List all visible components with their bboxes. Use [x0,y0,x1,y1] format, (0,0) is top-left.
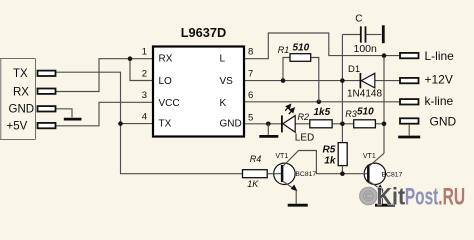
svg-text:Post: Post [405,184,438,211]
wire RX from connector up to IC pin1 [56,59,154,92]
node R5 Q2 base junction [340,171,345,176]
svg-text:L9637D: L9637D [181,25,227,40]
ground symbol at connector [64,118,82,121]
connector pad L-line [400,53,419,58]
svg-text:BC817: BC817 [295,171,316,178]
ground symbol at pin5 [259,135,278,138]
svg-text:VT1: VT1 [275,153,288,160]
transistor Q2 collector [369,153,384,166]
resistor R3 body [354,120,376,128]
wire GND pad stub [408,124,410,135]
svg-text:1K: 1K [247,179,259,189]
connector pad GND [38,106,56,111]
svg-text:GND: GND [9,104,35,116]
capacitor C plates [360,26,362,42]
svg-text:.RU: .RU [438,184,465,211]
svg-text:L: L [220,53,226,64]
svg-text:6: 6 [248,90,253,101]
node pin1 junction [128,56,133,61]
svg-text:1k5: 1k5 [314,107,331,118]
svg-text:8: 8 [248,47,253,58]
ground symbol at GND pad [398,136,420,139]
svg-text:2: 2 [142,68,147,79]
svg-text:R3: R3 [345,109,357,119]
wire pin1-pin2 link [130,59,153,81]
svg-text:RX: RX [159,53,173,64]
svg-text:D1: D1 [348,64,360,75]
wire +5V to IC pin3 VCC [56,102,154,126]
svg-text:k-line: k-line [425,94,454,108]
transistor Q2 base bar [367,165,370,182]
resistor R2 body [310,120,332,128]
wire vertical L-line to Q2 collector [383,56,385,154]
connector pad +5V [38,123,56,128]
IC U1 L9637D box [153,47,244,137]
svg-text:5: 5 [248,112,253,123]
connector pad GND right [400,118,419,123]
node R3 right junction [382,122,387,127]
resistor R5 lead bottom [341,166,343,174]
node L-line junction [382,53,387,58]
svg-text:R2: R2 [298,112,310,122]
wire TX from connector to IC pin4 and down to R4 [56,72,243,174]
resistor R4 body [243,170,268,178]
svg-text:100n: 100n [354,43,378,55]
connector pad k-line [400,99,419,104]
svg-text:VCC: VCC [159,98,180,109]
svg-text:GND: GND [220,119,242,130]
svg-text:Kit: Kit [377,184,406,211]
svg-text:R5: R5 [323,145,336,156]
connector pad RX [38,89,56,94]
LED cathode bar [281,115,283,132]
svg-text:L-line: L-line [425,49,455,63]
svg-text:TX: TX [159,119,172,130]
svg-text:4: 4 [142,112,147,123]
diode D1 triangle [361,73,375,88]
transistor Q1 body circle [274,163,295,184]
wire K k-line row [244,101,400,103]
svg-text:510: 510 [357,107,374,118]
ground symbol at Q1 emitter [288,204,308,207]
connector pad +12V [400,78,419,83]
svg-text:GND: GND [430,114,457,128]
svg-text:R4: R4 [250,154,262,164]
transistor Q2 emitter [369,181,382,190]
wire pin5 ground stub [267,124,269,135]
node k-line R1 junction [317,100,322,105]
svg-text:C: C [355,14,362,25]
transistor Q1 collector route to Q2 base [283,151,368,174]
wire vertical VS-cap-R5 net [341,35,343,143]
svg-text:+12V: +12V [425,73,453,87]
resistor R1 leads [283,58,290,81]
svg-text:3: 3 [142,90,147,101]
svg-text:©: © [363,189,374,205]
svg-text:VS: VS [220,76,234,87]
node pin5 junction [266,122,271,127]
svg-text:RX: RX [13,86,29,98]
resistor R1 body [290,54,311,62]
transistor Q1 base bar [281,165,284,182]
wire IC pin8 L route to L-line [244,33,400,59]
svg-text:1N4148: 1N4148 [347,89,382,100]
wire IC pin4 [121,123,154,125]
node R2 R3 R5 junction [340,122,345,127]
svg-text:+5V: +5V [7,121,28,133]
connector J1 box outline [0,59,36,140]
diode D1 cathode bar [359,73,361,88]
connector pad TX [38,71,56,76]
svg-text:7: 7 [248,69,253,80]
wire GND stub to ground [56,109,73,118]
svg-text:BC817: BC817 [382,172,403,179]
watermark KitPost.RU [360,184,465,211]
svg-text:K: K [220,98,227,109]
svg-text:VT1: VT1 [363,153,376,160]
svg-text:1k: 1k [324,156,336,167]
svg-text:1: 1 [142,47,147,58]
svg-text:LED: LED [295,133,314,144]
node VS cap junction [340,78,345,83]
LED arrows [285,105,294,115]
node pin4 junction [118,121,123,126]
wire R4 to Q1 base [267,173,282,175]
capacitor C lead left [342,34,360,36]
wire pin5 LED R2 R3 row [244,123,384,125]
node R1 left junction [281,78,286,83]
capacitor C lead right [366,34,381,36]
svg-text:LO: LO [159,76,173,87]
ground symbol at Q2 emitter [375,204,395,207]
svg-text:510: 510 [293,43,310,54]
transistor Q2 body circle [364,163,385,184]
ground symbol rotated at capacitor [382,25,385,43]
svg-text:TX: TX [13,68,28,80]
resistor R5 body [338,143,347,166]
svg-text:R1: R1 [278,45,290,55]
transistor Q1 emitter [283,181,296,190]
wire VS +12V row [244,80,400,82]
LED triangle [283,116,295,133]
